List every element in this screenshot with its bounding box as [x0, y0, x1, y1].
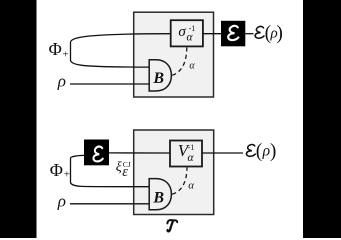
svg-text:ξ: ξ: [116, 160, 122, 175]
right letterbox bar: [303, 0, 341, 238]
label E (script, white) top: [228, 26, 238, 40]
label E(rho) output bottom: [246, 145, 255, 157]
left letterbox bar: [0, 0, 37, 238]
label E(rho) output top: [255, 26, 264, 38]
svg-text:ρ: ρ: [57, 71, 66, 90]
measurement B gate top: [149, 60, 171, 91]
wire rho input top: [70, 83, 149, 85]
wire V box to output label bottom: [202, 152, 243, 154]
svg-text:σ: σ: [178, 24, 186, 40]
dashed classical wire alpha top: [172, 48, 187, 76]
svg-text:ρ: ρ: [57, 191, 66, 210]
wire E box to output label: [245, 33, 253, 35]
svg-text:+: +: [63, 49, 69, 61]
measurement B gate bottom: [149, 179, 171, 210]
svg-text:B: B: [152, 70, 164, 87]
svg-text:α: α: [188, 152, 195, 164]
svg-text:Φ: Φ: [49, 39, 62, 59]
svg-text:ε: ε: [122, 164, 128, 180]
svg-text:ρ: ρ: [262, 142, 270, 159]
V inverse box: [170, 141, 202, 167]
box (transpose circuit) bottom: [134, 130, 214, 215]
label E (script, white) bottom: [93, 146, 102, 161]
wire sigma box to E box: [203, 33, 221, 35]
wire E box to V box: [109, 152, 170, 154]
label T (script) below box: [167, 220, 177, 231]
sigma inverse box: [171, 20, 203, 46]
svg-text:): ): [270, 141, 277, 162]
svg-text:-1: -1: [188, 143, 195, 152]
svg-text:α: α: [189, 61, 195, 72]
wire rho input bottom: [70, 203, 149, 205]
svg-text:-1: -1: [189, 24, 196, 33]
wire bell top to E box (bottom diagram): [71, 155, 150, 186]
dashed classical wire alpha bottom: [172, 168, 187, 195]
svg-text:(: (: [256, 141, 263, 162]
svg-text:+: +: [64, 169, 70, 181]
black channel box E top: [221, 21, 245, 47]
box (dilation circuit) top: [134, 12, 214, 97]
svg-text:): ): [276, 23, 283, 44]
svg-text:B: B: [152, 189, 164, 206]
svg-text:Φ: Φ: [50, 160, 63, 180]
svg-text:α: α: [188, 180, 194, 192]
black channel box E bottom: [84, 140, 109, 166]
wire bell top (Phi+ to sigma box): [71, 34, 171, 67]
